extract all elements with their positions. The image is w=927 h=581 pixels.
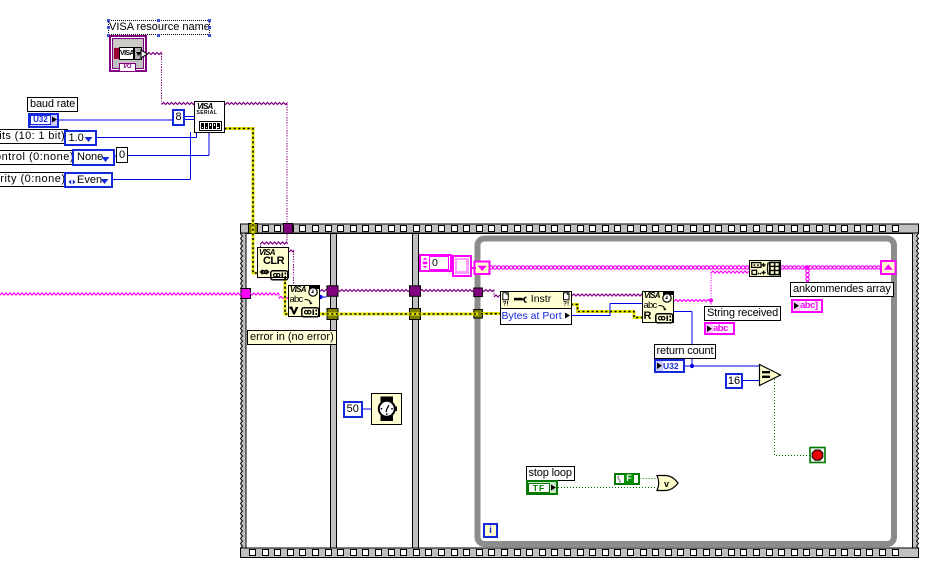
svg-text:v: v [664,479,669,489]
svg-text:?!: ?! [563,301,569,307]
svg-text:?!: ?! [502,301,508,307]
